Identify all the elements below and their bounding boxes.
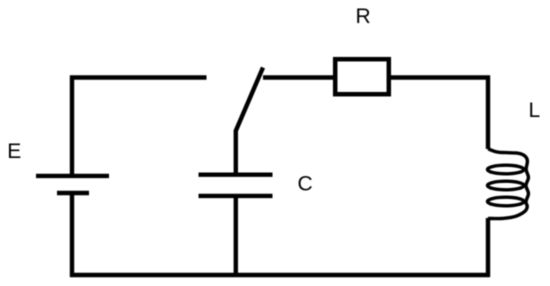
wire capacitor to bottom [234,196,238,275]
battery E long plate [36,174,109,178]
resistor R body [335,59,389,94]
svg-text:C: C [298,172,313,195]
switch S blade [236,68,264,132]
wire bottom horizontal [70,273,490,277]
wire switch pivot to capacitor [234,130,238,176]
svg-text:L: L [529,99,541,122]
capacitor C bottom plate [199,194,273,198]
wire right vertical upper [486,76,490,150]
capacitor C top plate [199,172,273,176]
svg-text:R: R [356,5,371,28]
wire top-left horizontal [70,75,207,79]
wire resistor to top-right corner [389,75,490,79]
wire right vertical lower [486,218,490,277]
inductor L loop 2 [487,181,524,190]
wire switch to resistor [263,75,335,79]
wire left vertical upper [70,76,74,177]
inductor L loop 1 [487,165,524,174]
inductor L coil spine [488,149,528,219]
battery E short plate [57,191,89,195]
wire left vertical lower [70,193,74,277]
svg-text:E: E [7,140,21,163]
inductor L loop 3 [487,197,524,206]
